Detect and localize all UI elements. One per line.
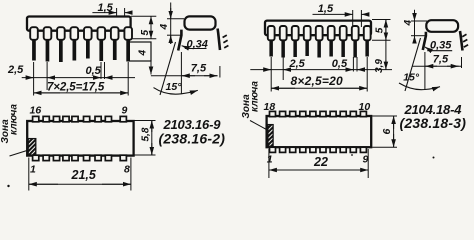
dimension 4 boxed (DIP-16 pin shoulder length) [129, 42, 151, 75]
DIP-16 top view body outline [27, 121, 133, 156]
svg-text:4: 4 [138, 50, 149, 57]
svg-text:8: 8 [124, 164, 130, 176]
svg-text:Зона: Зона [241, 94, 252, 119]
svg-text:16: 16 [30, 105, 42, 117]
svg-text:2,5: 2,5 [7, 64, 24, 76]
dimension 1,5 (DIP-18 pin top width) [313, 3, 369, 27]
DIP-18 top view lower pin pads [270, 147, 367, 152]
svg-text:4: 4 [159, 24, 170, 31]
svg-text:9: 9 [122, 105, 128, 117]
dimension 7×2,5=17,5 (DIP-16 lead span) [34, 62, 129, 96]
DIP-18 side view left lead (bent 15°) [423, 32, 426, 50]
svg-text:21,5: 21,5 [71, 168, 97, 182]
dimension 22 (DIP-18 body length) [269, 149, 368, 178]
dimension 0,35 (DIP-18 lead thickness) with leader [425, 39, 452, 51]
svg-text:15°: 15° [166, 81, 183, 93]
DIP-18 side view right lead [460, 31, 463, 51]
svg-text:8×2,5=20: 8×2,5=20 [291, 74, 343, 88]
DIP-16 side view left lead (bent 15°) [178, 30, 181, 51]
svg-text:3,9: 3,9 [374, 59, 385, 73]
DIP-16 top view lower pin pads [33, 155, 127, 160]
dimension 5 (DIP-16 body height) [131, 16, 156, 38]
DIP-16 key zone hatched mark [28, 139, 36, 155]
DIP-16 front view body [27, 17, 131, 31]
DIP-16 side view right lead [218, 29, 220, 51]
svg-text:6: 6 [381, 129, 393, 135]
svg-text:7,5: 7,5 [433, 54, 449, 66]
dimension 2,5 and 0,5 (DIP-16 pin pitch and width) [7, 62, 135, 96]
svg-text:18: 18 [264, 101, 276, 113]
dimension 8×2,5=20 (DIP-18 lead span) [271, 57, 367, 92]
svg-text:4: 4 [403, 20, 414, 27]
dimension 4 (DIP-18 side view) [403, 10, 427, 41]
DIP-16 front view narrow pin ends [32, 40, 130, 62]
svg-text:5: 5 [374, 27, 385, 33]
DIP-18 front view pin shoulders (9 leads) [268, 26, 371, 40]
dimension 5 (DIP-18 body height) [372, 20, 391, 41]
svg-text:15°: 15° [403, 72, 420, 84]
dimension 6 (DIP-18 body width) [372, 116, 397, 147]
dimension 1,5 (DIP-16 pin top width) [92, 2, 130, 18]
svg-text:9: 9 [363, 154, 369, 166]
svg-text:0,5: 0,5 [86, 65, 102, 77]
DIP-18 front view narrow pin ends [269, 40, 369, 57]
dimension 21,5 (DIP-16 body length) [29, 158, 131, 191]
svg-text:10: 10 [359, 101, 371, 113]
15° angle (DIP-16 lead bend) with arc [154, 42, 198, 95]
svg-text:22: 22 [313, 155, 328, 169]
label Зона ключа (DIP-16) with leader [0, 104, 27, 156]
dimension 0,34 (DIP-16 lead thickness) with leader [182, 38, 208, 50]
svg-text:1,5: 1,5 [98, 2, 114, 14]
DIP-16 top view upper pin pads [33, 116, 127, 121]
dimension 4 (DIP-16 side view, body top to bend) [159, 3, 184, 45]
DIP-16 front view pin shoulders (8 leads) [30, 27, 132, 40]
svg-text:0,5: 0,5 [332, 58, 348, 70]
dimension 3,9 (DIP-18 shoulder length) [374, 40, 386, 73]
dimension 2,5 and 0,5 (DIP-18 pin pitch and width) [250, 57, 392, 92]
DIP-18 top view body outline [267, 116, 372, 147]
DIP-16 side view lead tick marks [223, 35, 229, 48]
svg-text:7×2,5=17,5: 7×2,5=17,5 [47, 82, 105, 94]
svg-text:(238.16-2): (238.16-2) [159, 131, 226, 147]
svg-text:5,8: 5,8 [141, 127, 152, 141]
dimension 7,5 (DIP-18 side view lead spacing) [412, 54, 462, 69]
svg-text:7,5: 7,5 [191, 63, 207, 75]
paper specks [7, 185, 9, 187]
DIP-18 front view body [265, 21, 371, 36]
svg-text:1,5: 1,5 [318, 3, 334, 15]
svg-text:2,5: 2,5 [289, 58, 306, 70]
label Зона ключа (DIP-18) with leader [241, 81, 267, 130]
svg-text:5: 5 [140, 30, 151, 36]
DIP-18 side view lead tick marks [462, 34, 468, 47]
DIP-18 key zone hatched mark [268, 125, 273, 147]
DIP-18 top view upper pin pads [270, 111, 367, 116]
svg-text:Зона: Зона [0, 119, 11, 144]
svg-text:1: 1 [267, 154, 273, 166]
DIP-16 side view body [185, 16, 216, 29]
15° angle (DIP-18 lead bend) with arc [399, 38, 440, 91]
dimension 7,5 (DIP-16 side view lead spacing) [151, 63, 220, 78]
svg-text:1: 1 [30, 164, 36, 176]
svg-text:0,35: 0,35 [430, 39, 452, 51]
dimension 5,8 (DIP-16 body width) [134, 121, 156, 156]
svg-text:(238.18-3): (238.18-3) [400, 115, 467, 131]
DIP-18 side view body [426, 20, 458, 32]
